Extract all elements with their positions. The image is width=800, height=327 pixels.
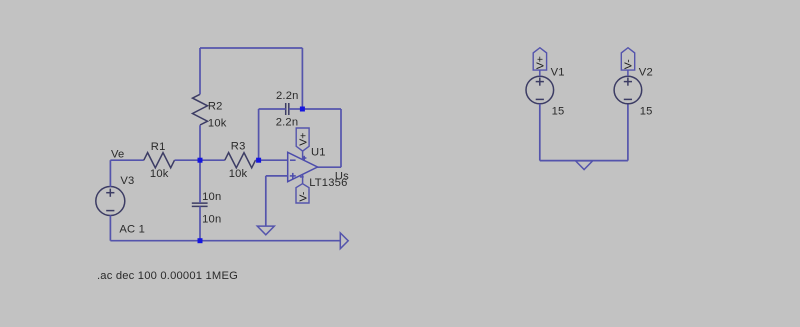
output arrow — [340, 233, 348, 249]
net flag V+ — [296, 128, 309, 151]
svg-text:V-: V- — [622, 59, 634, 69]
svg-text:V2: V2 — [639, 67, 653, 79]
voltage source V1 — [526, 76, 554, 104]
wire — [265, 176, 267, 226]
wire bottom rail — [110, 240, 340, 242]
wire — [302, 108, 341, 110]
resistor R2 — [193, 94, 208, 125]
wire — [175, 159, 225, 161]
svg-text:V3: V3 — [120, 175, 134, 187]
svg-text:Us: Us — [335, 170, 349, 182]
wire rail — [540, 160, 628, 162]
voltage source V3 — [96, 187, 125, 216]
wire V+ pin — [302, 151, 304, 160]
junction — [256, 158, 261, 163]
wire — [539, 70, 541, 76]
voltage source V2 — [614, 76, 642, 104]
svg-text:R1: R1 — [151, 141, 166, 153]
wire — [109, 215, 111, 240]
junction — [198, 238, 203, 243]
op-amp U1 — [288, 152, 318, 181]
wire — [258, 109, 260, 160]
wire — [301, 48, 303, 109]
resistor R3 — [225, 153, 256, 168]
svg-text:R3: R3 — [231, 141, 246, 153]
svg-text:10k: 10k — [208, 118, 227, 130]
svg-text:Ve: Ve — [111, 149, 124, 161]
wire — [199, 160, 201, 203]
wire — [266, 175, 288, 177]
wire — [109, 160, 111, 187]
svg-text:2.2n: 2.2n — [276, 90, 299, 102]
ground — [576, 161, 593, 170]
svg-text:2.2n: 2.2n — [276, 117, 299, 129]
wire V- pin — [302, 175, 304, 184]
junction — [300, 107, 305, 112]
capacitor C 2.2n — [286, 103, 289, 115]
wire — [259, 108, 286, 110]
wire — [318, 166, 342, 168]
wire — [199, 125, 201, 160]
svg-text:V-: V- — [297, 191, 309, 201]
net flag V- — [296, 184, 309, 203]
svg-text:15: 15 — [552, 105, 565, 117]
wire — [199, 48, 201, 94]
resistor R1 — [144, 153, 175, 168]
wire — [199, 207, 201, 241]
svg-text:10n: 10n — [202, 191, 221, 203]
ground — [257, 226, 274, 235]
svg-text:V1: V1 — [551, 67, 565, 79]
wire — [340, 109, 342, 167]
svg-text:R2: R2 — [208, 100, 223, 112]
wire — [256, 159, 288, 161]
svg-text:V+: V+ — [534, 56, 546, 69]
svg-text:.ac dec 100 0.00001 1MEG: .ac dec 100 0.00001 1MEG — [97, 270, 238, 282]
capacitor C 10n — [192, 203, 208, 206]
net flag V+ — [533, 48, 546, 70]
wire — [289, 108, 303, 110]
svg-text:15: 15 — [640, 105, 653, 117]
net flag V- — [621, 48, 634, 70]
svg-text:10n: 10n — [202, 213, 221, 225]
svg-text:V+: V+ — [298, 133, 310, 146]
wire — [627, 104, 629, 161]
svg-text:10k: 10k — [229, 168, 248, 180]
wire — [539, 104, 541, 161]
wire — [627, 70, 629, 76]
svg-text:U1: U1 — [311, 147, 326, 159]
svg-text:10k: 10k — [150, 168, 169, 180]
junction — [198, 158, 203, 163]
svg-text:AC 1: AC 1 — [119, 224, 145, 236]
wire top rail — [200, 47, 302, 49]
wire — [110, 159, 143, 161]
